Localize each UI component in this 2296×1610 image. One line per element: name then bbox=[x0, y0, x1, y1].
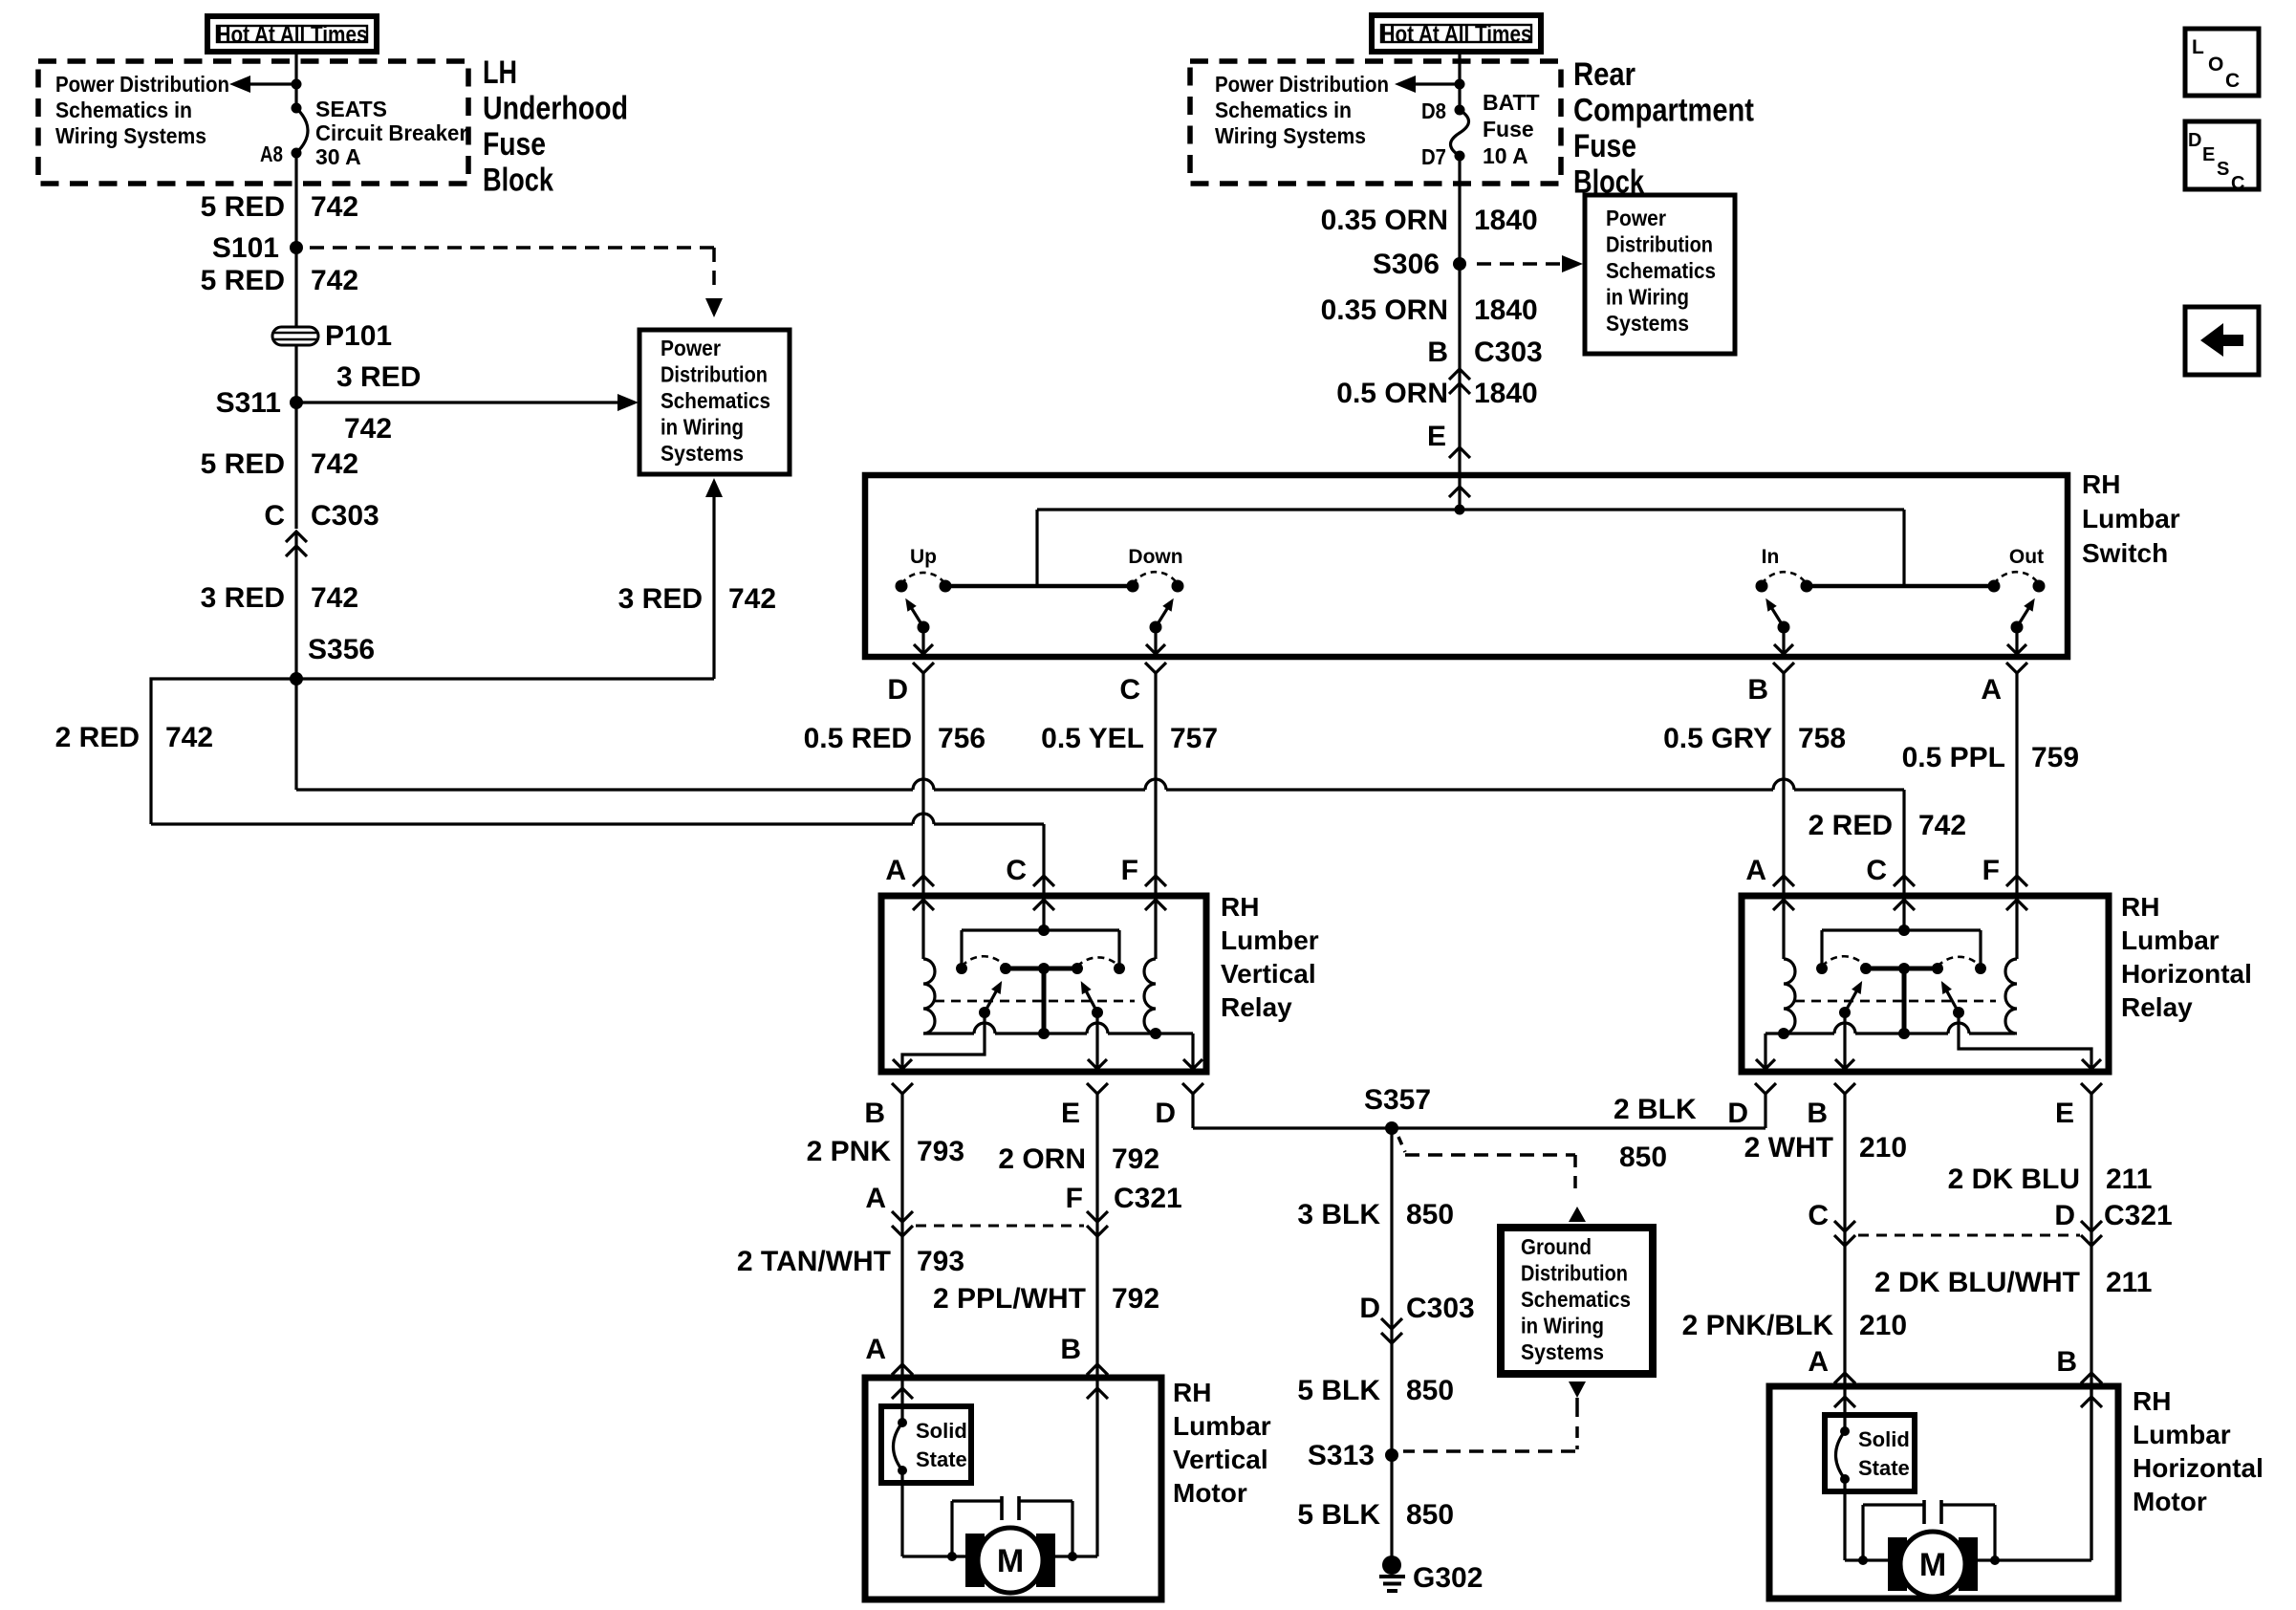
svg-text:E: E bbox=[1427, 421, 1446, 452]
svg-text:2 WHT: 2 WHT bbox=[1744, 1132, 1833, 1164]
svg-text:Lumbar: Lumbar bbox=[2082, 504, 2180, 533]
svg-text:2 DK BLU: 2 DK BLU bbox=[1948, 1164, 2080, 1195]
svg-text:D8: D8 bbox=[1421, 98, 1446, 123]
svg-text:Distribution: Distribution bbox=[1606, 232, 1713, 257]
svg-text:In: In bbox=[1762, 546, 1780, 568]
svg-text:2 RED: 2 RED bbox=[1809, 810, 1893, 841]
svg-text:2 DK BLU/WHT: 2 DK BLU/WHT bbox=[1874, 1267, 2080, 1298]
svg-text:Motor: Motor bbox=[1173, 1478, 1247, 1508]
svg-text:Down: Down bbox=[1128, 546, 1182, 568]
svg-text:M: M bbox=[997, 1543, 1024, 1579]
svg-text:5 RED: 5 RED bbox=[201, 265, 285, 296]
svg-text:B: B bbox=[2056, 1346, 2077, 1378]
svg-text:5 BLK: 5 BLK bbox=[1297, 1375, 1380, 1406]
svg-text:L: L bbox=[2192, 36, 2204, 58]
svg-text:Distribution: Distribution bbox=[1521, 1261, 1628, 1286]
svg-text:B: B bbox=[1807, 1098, 1828, 1129]
svg-text:Lumbar: Lumbar bbox=[1173, 1411, 1271, 1441]
svg-text:C: C bbox=[2225, 70, 2240, 92]
svg-text:Power Distribution: Power Distribution bbox=[1215, 72, 1389, 97]
svg-text:10 A: 10 A bbox=[1483, 143, 1528, 168]
svg-text:G302: G302 bbox=[1413, 1562, 1483, 1594]
svg-text:State: State bbox=[1858, 1456, 1910, 1480]
svg-text:850: 850 bbox=[1406, 1199, 1454, 1230]
svg-text:E: E bbox=[2202, 144, 2215, 165]
svg-text:A8: A8 bbox=[260, 141, 283, 166]
svg-text:742: 742 bbox=[311, 582, 358, 614]
svg-text:5 BLK: 5 BLK bbox=[1297, 1499, 1380, 1531]
svg-text:2 BLK: 2 BLK bbox=[1614, 1094, 1697, 1125]
svg-text:Fuse: Fuse bbox=[483, 126, 546, 163]
svg-text:758: 758 bbox=[1798, 723, 1846, 754]
svg-text:C321: C321 bbox=[1114, 1183, 1182, 1214]
svg-text:793: 793 bbox=[917, 1246, 964, 1277]
svg-text:742: 742 bbox=[728, 583, 776, 615]
svg-text:Fuse: Fuse bbox=[1573, 128, 1636, 164]
svg-text:F: F bbox=[1121, 855, 1138, 886]
svg-text:F: F bbox=[1982, 855, 2000, 886]
svg-text:Vertical: Vertical bbox=[1173, 1445, 1268, 1474]
svg-text:S306: S306 bbox=[1373, 249, 1440, 280]
svg-text:D: D bbox=[1359, 1293, 1380, 1324]
svg-text:211: 211 bbox=[2106, 1267, 2152, 1298]
svg-text:0.35 ORN: 0.35 ORN bbox=[1321, 205, 1448, 236]
svg-text:Rear: Rear bbox=[1573, 56, 1635, 93]
svg-text:792: 792 bbox=[1112, 1143, 1159, 1175]
svg-text:2 PPL/WHT: 2 PPL/WHT bbox=[933, 1283, 1086, 1315]
svg-text:0.35 ORN: 0.35 ORN bbox=[1321, 294, 1448, 326]
svg-text:850: 850 bbox=[1406, 1375, 1454, 1406]
svg-text:Lumbar: Lumbar bbox=[2121, 925, 2220, 955]
svg-text:Motor: Motor bbox=[2133, 1487, 2207, 1516]
svg-text:0.5 RED: 0.5 RED bbox=[804, 723, 912, 754]
svg-text:Solid: Solid bbox=[1858, 1427, 1910, 1451]
svg-text:5 RED: 5 RED bbox=[201, 448, 285, 480]
svg-text:Switch: Switch bbox=[2082, 538, 2168, 568]
svg-text:2 TAN/WHT: 2 TAN/WHT bbox=[737, 1246, 891, 1277]
svg-text:Power Distribution: Power Distribution bbox=[55, 72, 229, 97]
svg-text:3 RED: 3 RED bbox=[201, 582, 285, 614]
svg-text:D7: D7 bbox=[1421, 144, 1446, 169]
svg-text:D: D bbox=[887, 674, 908, 706]
svg-text:B: B bbox=[1060, 1334, 1081, 1365]
svg-text:Schematics: Schematics bbox=[1606, 258, 1716, 283]
svg-text:793: 793 bbox=[917, 1136, 964, 1167]
svg-text:in Wiring: in Wiring bbox=[1521, 1314, 1604, 1338]
svg-text:1840: 1840 bbox=[1474, 378, 1538, 409]
svg-text:C: C bbox=[1866, 855, 1887, 886]
svg-text:RH: RH bbox=[2082, 469, 2120, 499]
svg-text:757: 757 bbox=[1170, 723, 1218, 754]
svg-text:0.5 YEL: 0.5 YEL bbox=[1041, 723, 1144, 754]
svg-text:E: E bbox=[1061, 1098, 1080, 1129]
svg-text:S101: S101 bbox=[212, 232, 279, 264]
svg-text:2 PNK/BLK: 2 PNK/BLK bbox=[1682, 1310, 1834, 1341]
svg-text:Distribution: Distribution bbox=[661, 362, 768, 387]
svg-text:RH: RH bbox=[1173, 1378, 1211, 1407]
svg-text:C: C bbox=[1808, 1200, 1829, 1231]
svg-text:850: 850 bbox=[1619, 1142, 1667, 1173]
svg-text:742: 742 bbox=[165, 722, 213, 753]
svg-text:742: 742 bbox=[311, 191, 358, 223]
svg-text:S313: S313 bbox=[1308, 1440, 1375, 1471]
svg-text:Relay: Relay bbox=[2121, 992, 2193, 1022]
svg-text:759: 759 bbox=[2031, 742, 2079, 773]
svg-text:S356: S356 bbox=[308, 634, 375, 665]
svg-text:Schematics: Schematics bbox=[661, 388, 770, 413]
svg-text:Ground: Ground bbox=[1521, 1234, 1592, 1259]
svg-text:A: A bbox=[885, 855, 906, 886]
svg-text:D: D bbox=[2188, 130, 2201, 151]
svg-text:Up: Up bbox=[910, 546, 937, 568]
svg-text:LH: LH bbox=[483, 54, 517, 91]
svg-text:Compartment: Compartment bbox=[1573, 93, 1754, 129]
svg-text:2 ORN: 2 ORN bbox=[998, 1143, 1086, 1175]
svg-text:210: 210 bbox=[1859, 1310, 1907, 1341]
svg-text:Solid: Solid bbox=[916, 1419, 967, 1443]
svg-text:Horizontal: Horizontal bbox=[2133, 1453, 2264, 1483]
svg-text:Relay: Relay bbox=[1221, 992, 1292, 1022]
svg-text:0.5 PPL: 0.5 PPL bbox=[1902, 742, 2005, 773]
svg-text:Circuit Breaker: Circuit Breaker bbox=[315, 120, 467, 145]
svg-text:Power: Power bbox=[1606, 206, 1666, 230]
svg-text:Hot At All Times: Hot At All Times bbox=[1381, 21, 1532, 48]
svg-text:Systems: Systems bbox=[1521, 1339, 1604, 1364]
svg-text:A: A bbox=[865, 1334, 886, 1365]
svg-text:State: State bbox=[916, 1447, 967, 1471]
svg-text:Systems: Systems bbox=[1606, 311, 1689, 336]
svg-text:A: A bbox=[865, 1183, 886, 1214]
svg-text:A: A bbox=[1745, 855, 1766, 886]
svg-text:1840: 1840 bbox=[1474, 294, 1538, 326]
svg-text:2 RED: 2 RED bbox=[55, 722, 140, 753]
svg-text:S357: S357 bbox=[1364, 1084, 1431, 1116]
svg-text:M: M bbox=[1919, 1547, 1946, 1583]
svg-text:Hot At All Times: Hot At All Times bbox=[217, 22, 368, 49]
svg-text:C: C bbox=[1006, 855, 1027, 886]
svg-text:742: 742 bbox=[311, 265, 358, 296]
svg-text:Vertical: Vertical bbox=[1221, 959, 1316, 989]
svg-text:0.5 ORN: 0.5 ORN bbox=[1336, 378, 1448, 409]
svg-text:Lumber: Lumber bbox=[1221, 925, 1319, 955]
svg-text:Power: Power bbox=[661, 336, 721, 360]
svg-text:E: E bbox=[2055, 1098, 2074, 1129]
svg-text:D: D bbox=[1155, 1098, 1176, 1129]
svg-text:0.5 GRY: 0.5 GRY bbox=[1663, 723, 1772, 754]
svg-text:Wiring Systems: Wiring Systems bbox=[55, 123, 206, 148]
svg-text:2 PNK: 2 PNK bbox=[807, 1136, 892, 1167]
svg-text:B: B bbox=[1427, 337, 1448, 368]
svg-text:A: A bbox=[1808, 1346, 1829, 1378]
svg-text:792: 792 bbox=[1112, 1283, 1159, 1315]
svg-text:Block: Block bbox=[483, 163, 553, 199]
svg-text:in Wiring: in Wiring bbox=[661, 415, 744, 440]
svg-text:A: A bbox=[1981, 674, 2002, 706]
svg-text:D: D bbox=[2054, 1200, 2075, 1231]
svg-text:SEATS: SEATS bbox=[315, 97, 387, 121]
svg-text:Systems: Systems bbox=[661, 441, 744, 466]
svg-text:Schematics in: Schematics in bbox=[55, 98, 192, 122]
svg-text:B: B bbox=[1747, 674, 1768, 706]
svg-text:C: C bbox=[264, 500, 285, 532]
svg-text:Horizontal: Horizontal bbox=[2121, 959, 2252, 989]
svg-text:3 BLK: 3 BLK bbox=[1297, 1199, 1380, 1230]
svg-text:742: 742 bbox=[311, 448, 358, 480]
svg-text:850: 850 bbox=[1406, 1499, 1454, 1531]
svg-text:3 RED: 3 RED bbox=[618, 583, 703, 615]
svg-text:RH: RH bbox=[2121, 892, 2159, 922]
svg-text:C: C bbox=[2231, 173, 2244, 194]
svg-text:S: S bbox=[2217, 159, 2229, 180]
svg-text:210: 210 bbox=[1859, 1132, 1907, 1164]
svg-text:Schematics in: Schematics in bbox=[1215, 98, 1352, 122]
svg-text:O: O bbox=[2208, 54, 2223, 76]
svg-text:Fuse: Fuse bbox=[1483, 117, 1534, 141]
svg-text:Schematics: Schematics bbox=[1521, 1287, 1631, 1312]
svg-text:5 RED: 5 RED bbox=[201, 191, 285, 223]
svg-text:B: B bbox=[864, 1098, 885, 1129]
svg-text:in Wiring: in Wiring bbox=[1606, 285, 1689, 310]
svg-text:Wiring Systems: Wiring Systems bbox=[1215, 123, 1366, 148]
svg-text:P101: P101 bbox=[325, 320, 392, 352]
svg-text:C: C bbox=[1119, 674, 1140, 706]
svg-text:Lumbar: Lumbar bbox=[2133, 1420, 2231, 1449]
svg-text:Out: Out bbox=[2009, 546, 2044, 568]
svg-text:3 RED: 3 RED bbox=[336, 361, 421, 393]
svg-text:C321: C321 bbox=[2104, 1200, 2173, 1231]
svg-text:Underhood: Underhood bbox=[483, 91, 628, 127]
svg-text:211: 211 bbox=[2106, 1164, 2152, 1195]
svg-text:F: F bbox=[1066, 1183, 1083, 1214]
svg-text:S311: S311 bbox=[216, 387, 281, 419]
svg-text:1840: 1840 bbox=[1474, 205, 1538, 236]
svg-text:RH: RH bbox=[1221, 892, 1259, 922]
svg-text:742: 742 bbox=[1918, 810, 1966, 841]
svg-text:C303: C303 bbox=[311, 500, 379, 532]
svg-text:D: D bbox=[1727, 1098, 1748, 1129]
svg-text:30 A: 30 A bbox=[315, 144, 361, 169]
svg-text:742: 742 bbox=[344, 413, 392, 445]
svg-text:BATT: BATT bbox=[1483, 90, 1540, 115]
svg-text:RH: RH bbox=[2133, 1386, 2171, 1416]
svg-text:C303: C303 bbox=[1474, 337, 1543, 368]
svg-text:756: 756 bbox=[938, 723, 986, 754]
svg-text:C303: C303 bbox=[1406, 1293, 1475, 1324]
